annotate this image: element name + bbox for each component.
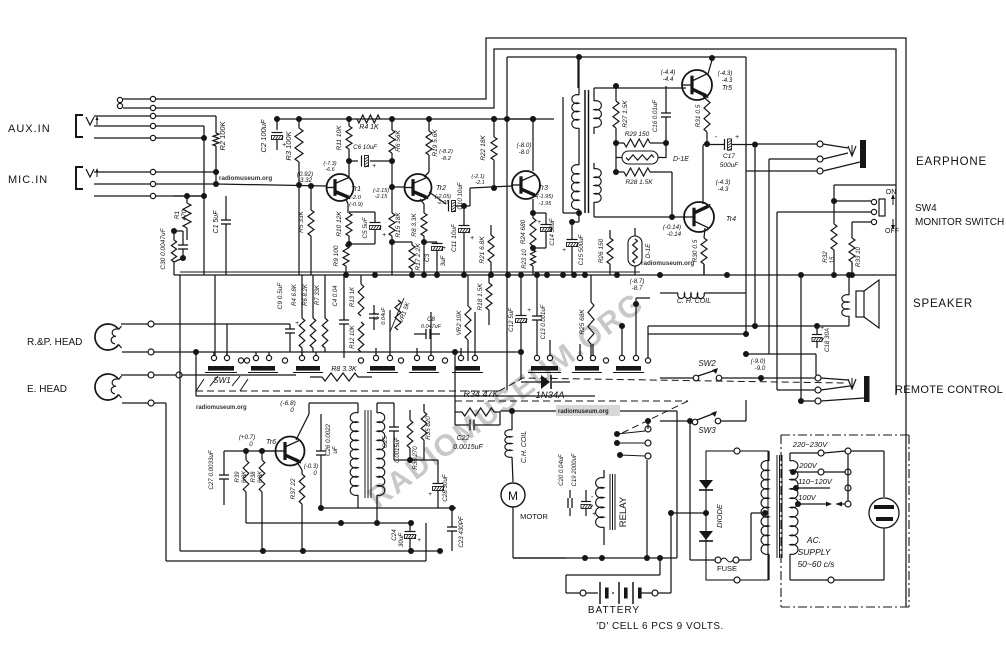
svg-text:R2 100K: R2 100K <box>218 120 227 150</box>
svg-text:R38: R38 <box>251 471 257 483</box>
svg-text:R22 18K: R22 18K <box>480 135 487 161</box>
svg-text:R.&P. HEAD: R.&P. HEAD <box>27 337 82 348</box>
svg-text:R29 150: R29 150 <box>625 131 650 138</box>
svg-text:C11 10uF: C11 10uF <box>451 223 458 252</box>
svg-text:+: + <box>735 134 739 141</box>
svg-text:R6 56K: R6 56K <box>395 129 402 151</box>
svg-text:R32: R32 <box>822 251 829 263</box>
svg-text:DIODE: DIODE <box>715 503 724 528</box>
svg-text:D-1E: D-1E <box>673 156 689 163</box>
svg-text:C26 0.0022: C26 0.0022 <box>325 423 332 456</box>
svg-text:R6 8.2K: R6 8.2K <box>303 283 309 306</box>
svg-text:Tr5: Tr5 <box>722 85 732 92</box>
svg-text:-2.0: -2.0 <box>351 195 362 201</box>
svg-text:R4 6.8K: R4 6.8K <box>292 283 298 306</box>
svg-text:Tr6: Tr6 <box>266 439 276 446</box>
svg-text:-8.2: -8.2 <box>441 156 452 162</box>
svg-text:R10 12K: R10 12K <box>336 211 343 237</box>
svg-text:(-9.0): (-9.0) <box>751 358 766 365</box>
svg-text:C14 30uF: C14 30uF <box>549 217 556 245</box>
svg-text:100V: 100V <box>798 493 817 502</box>
svg-text:R26 150: R26 150 <box>598 238 605 263</box>
svg-text:+: + <box>537 219 541 226</box>
svg-text:(+0.7): (+0.7) <box>239 434 255 441</box>
svg-text:SW2: SW2 <box>698 359 716 368</box>
svg-text:MIC.IN: MIC.IN <box>8 174 48 186</box>
svg-text:R35 820: R35 820 <box>425 416 432 440</box>
svg-text:+: + <box>417 537 421 544</box>
svg-text:R15 18K: R15 18K <box>395 212 402 238</box>
svg-text:+: + <box>295 320 299 327</box>
svg-text:radiomuseum.org: radiomuseum.org <box>641 260 694 267</box>
svg-text:-8.7: -8.7 <box>632 285 643 292</box>
svg-text:R30 0.5: R30 0.5 <box>692 239 699 262</box>
svg-text:C19 2000uF: C19 2000uF <box>572 453 578 486</box>
svg-text:470: 470 <box>181 209 188 220</box>
svg-text:R19 5.6K: R19 5.6K <box>432 129 439 157</box>
svg-text:C28 30uF: C28 30uF <box>442 473 449 501</box>
svg-text:SW1: SW1 <box>213 376 230 385</box>
svg-text:R11 10K: R11 10K <box>336 125 343 150</box>
svg-text:(-0.14): (-0.14) <box>663 224 681 231</box>
svg-text:500uF: 500uF <box>720 162 739 169</box>
svg-text:C16 0.01uF: C16 0.01uF <box>652 99 659 133</box>
svg-text:R17 2.2K: R17 2.2K <box>415 243 422 271</box>
svg-text:R34 47K: R34 47K <box>463 389 499 399</box>
svg-text:Tr1: Tr1 <box>351 186 361 193</box>
svg-text:C2 100uF: C2 100uF <box>259 119 268 152</box>
svg-text:FUSE: FUSE <box>717 564 737 573</box>
svg-text:R24 680: R24 680 <box>520 219 527 244</box>
svg-text:R36 270: R36 270 <box>412 446 419 470</box>
svg-text:C5 5uF: C5 5uF <box>362 216 369 238</box>
svg-text:(-8.0): (-8.0) <box>517 142 532 149</box>
svg-text:30uF: 30uF <box>398 532 405 547</box>
svg-text:(-8.2): (-8.2) <box>439 149 453 155</box>
svg-text:R7 33K: R7 33K <box>315 284 321 305</box>
svg-text:+: + <box>470 235 474 242</box>
svg-text:radiomuseum.org: radiomuseum.org <box>219 175 272 182</box>
svg-text:C.H. COIL: C.H. COIL <box>521 431 528 463</box>
svg-text:Tr2: Tr2 <box>436 185 446 192</box>
svg-text:R13 1K: R13 1K <box>350 286 356 307</box>
svg-text:D-1E: D-1E <box>645 243 652 258</box>
svg-text:R27 1.5K: R27 1.5K <box>622 100 629 128</box>
svg-text:-3.32: -3.32 <box>298 177 313 184</box>
svg-text:-2.15: -2.15 <box>375 194 388 200</box>
svg-text:C25: C25 <box>382 436 389 448</box>
svg-text:0.04uF: 0.04uF <box>381 307 387 325</box>
svg-text:+: + <box>382 232 386 239</box>
svg-text:R5 33K: R5 33K <box>298 210 305 232</box>
svg-text:0: 0 <box>290 407 294 414</box>
svg-text:+: + <box>527 307 531 314</box>
svg-text:-4.3: -4.3 <box>718 186 729 193</box>
svg-text:(-6.8): (-6.8) <box>280 400 296 407</box>
svg-text:C9 0.5uF: C9 0.5uF <box>277 282 284 310</box>
svg-text:R39: R39 <box>235 471 241 483</box>
svg-text:(-4.3): (-4.3) <box>716 179 731 186</box>
svg-text:-0.14: -0.14 <box>667 231 682 238</box>
svg-text:uF: uF <box>332 445 339 453</box>
svg-text:+: + <box>820 325 824 332</box>
svg-text:C. H. COIL: C. H. COIL <box>677 298 711 305</box>
svg-text:(-0.9): (-0.9) <box>349 202 363 208</box>
svg-text:R23 10: R23 10 <box>522 249 528 269</box>
svg-text:OFF: OFF <box>885 228 899 235</box>
svg-text:EARPHONE: EARPHONE <box>916 156 987 168</box>
svg-text:R33 10: R33 10 <box>855 246 862 267</box>
svg-text:ON: ON <box>886 189 897 196</box>
svg-text:R9 100: R9 100 <box>333 245 340 266</box>
svg-text:E. HEAD: E. HEAD <box>27 384 67 395</box>
svg-text:SW4: SW4 <box>915 203 937 214</box>
svg-text:C20 0.04uF: C20 0.04uF <box>559 454 565 486</box>
svg-text:(-8.7): (-8.7) <box>630 278 645 285</box>
svg-text:C18 30A: C18 30A <box>824 328 831 352</box>
svg-text:C12 5uF: C12 5uF <box>508 307 515 332</box>
svg-text:SW3: SW3 <box>698 426 716 435</box>
svg-text:6.8K: 6.8K <box>242 470 248 483</box>
svg-text:MONITOR SWITCH: MONITOR SWITCH <box>915 217 1004 228</box>
svg-text:C13 0.001uF: C13 0.001uF <box>541 304 547 339</box>
svg-text:C17: C17 <box>723 153 735 160</box>
svg-text:BATTERY: BATTERY <box>588 605 640 616</box>
svg-text:C30 0.0047uF: C30 0.0047uF <box>160 227 167 269</box>
svg-text:220~230V: 220~230V <box>792 440 828 449</box>
svg-text:C4 0.04: C4 0.04 <box>333 285 339 307</box>
svg-text:-6.6: -6.6 <box>325 167 335 173</box>
svg-text:3uF: 3uF <box>440 254 447 266</box>
svg-text:R8 3.3K: R8 3.3K <box>331 366 357 373</box>
svg-text:(-0.3): (-0.3) <box>304 464 318 470</box>
svg-text:Tr3: Tr3 <box>538 185 548 192</box>
svg-text:-4.3: -4.3 <box>722 77 733 84</box>
svg-text:RELAY: RELAY <box>618 496 629 527</box>
svg-text:R18 1.5K: R18 1.5K <box>477 283 484 311</box>
svg-text:+: + <box>372 163 376 170</box>
svg-text:R25 68K: R25 68K <box>579 309 586 335</box>
svg-text:C23 430PF: C23 430PF <box>458 515 465 548</box>
svg-text:MOTOR: MOTOR <box>520 512 548 521</box>
svg-text:REMOTE CONTROL: REMOTE CONTROL <box>895 384 1003 396</box>
svg-text:+: + <box>442 245 446 252</box>
svg-text:R3 100K: R3 100K <box>284 130 293 160</box>
svg-text:15: 15 <box>829 256 836 263</box>
svg-text:0.0015uF: 0.0015uF <box>395 437 401 463</box>
svg-text:AC.: AC. <box>806 535 821 545</box>
svg-text:C22: C22 <box>457 435 470 442</box>
svg-text:-8.0: -8.0 <box>519 149 530 156</box>
svg-text:110~120V: 110~120V <box>798 477 833 486</box>
svg-text:C27 0.0033uF: C27 0.0033uF <box>208 449 215 489</box>
svg-text:R21 6.8K: R21 6.8K <box>479 236 486 264</box>
svg-text:C1 5uF: C1 5uF <box>213 210 220 234</box>
svg-text:Tr4: Tr4 <box>726 216 736 223</box>
svg-text:C3: C3 <box>424 253 431 262</box>
svg-text:R12 10K: R12 10K <box>350 324 356 348</box>
svg-text:'D' CELL 6 PCS 9 VOLTS.: 'D' CELL 6 PCS 9 VOLTS. <box>596 621 724 632</box>
svg-text:AUX.IN: AUX.IN <box>8 123 51 135</box>
svg-text:200V: 200V <box>798 461 818 470</box>
svg-text:R8 3.3K: R8 3.3K <box>411 213 418 237</box>
svg-text:0: 0 <box>249 441 253 448</box>
svg-text:+: + <box>562 247 566 254</box>
svg-text:radiomuseum.org: radiomuseum.org <box>558 409 609 415</box>
svg-text:(-4.3): (-4.3) <box>718 70 733 77</box>
svg-text:R31 0.5: R31 0.5 <box>695 104 702 127</box>
svg-text:R28 1.5K: R28 1.5K <box>625 179 653 186</box>
svg-text:M: M <box>508 489 518 503</box>
svg-text:(-4.4): (-4.4) <box>661 69 676 76</box>
svg-text:-9.0: -9.0 <box>755 365 766 372</box>
svg-text:C6 10uF: C6 10uF <box>353 144 378 151</box>
svg-text:-1.95: -1.95 <box>539 201 552 207</box>
svg-text:R4 1K: R4 1K <box>359 124 379 131</box>
svg-text:+: + <box>428 491 432 498</box>
svg-text:R37 22: R37 22 <box>290 478 297 499</box>
svg-text:radiomuseum.org: radiomuseum.org <box>196 405 247 411</box>
svg-text:-4.4: -4.4 <box>663 76 674 83</box>
svg-text:6.8K: 6.8K <box>258 470 264 483</box>
svg-text:C15 500uF: C15 500uF <box>578 233 585 265</box>
svg-text:SUPPLY: SUPPLY <box>798 547 832 557</box>
svg-text:(-1.95): (-1.95) <box>537 194 553 200</box>
svg-text:0.0015uF: 0.0015uF <box>453 444 483 451</box>
svg-text:R1: R1 <box>174 210 181 219</box>
svg-text:VR2 10K: VR2 10K <box>456 310 463 336</box>
svg-text:SPEAKER: SPEAKER <box>913 298 973 310</box>
svg-text:C24: C24 <box>391 529 398 541</box>
svg-text:50~60 c/s: 50~60 c/s <box>797 559 835 569</box>
svg-text:-2.1: -2.1 <box>475 180 484 186</box>
